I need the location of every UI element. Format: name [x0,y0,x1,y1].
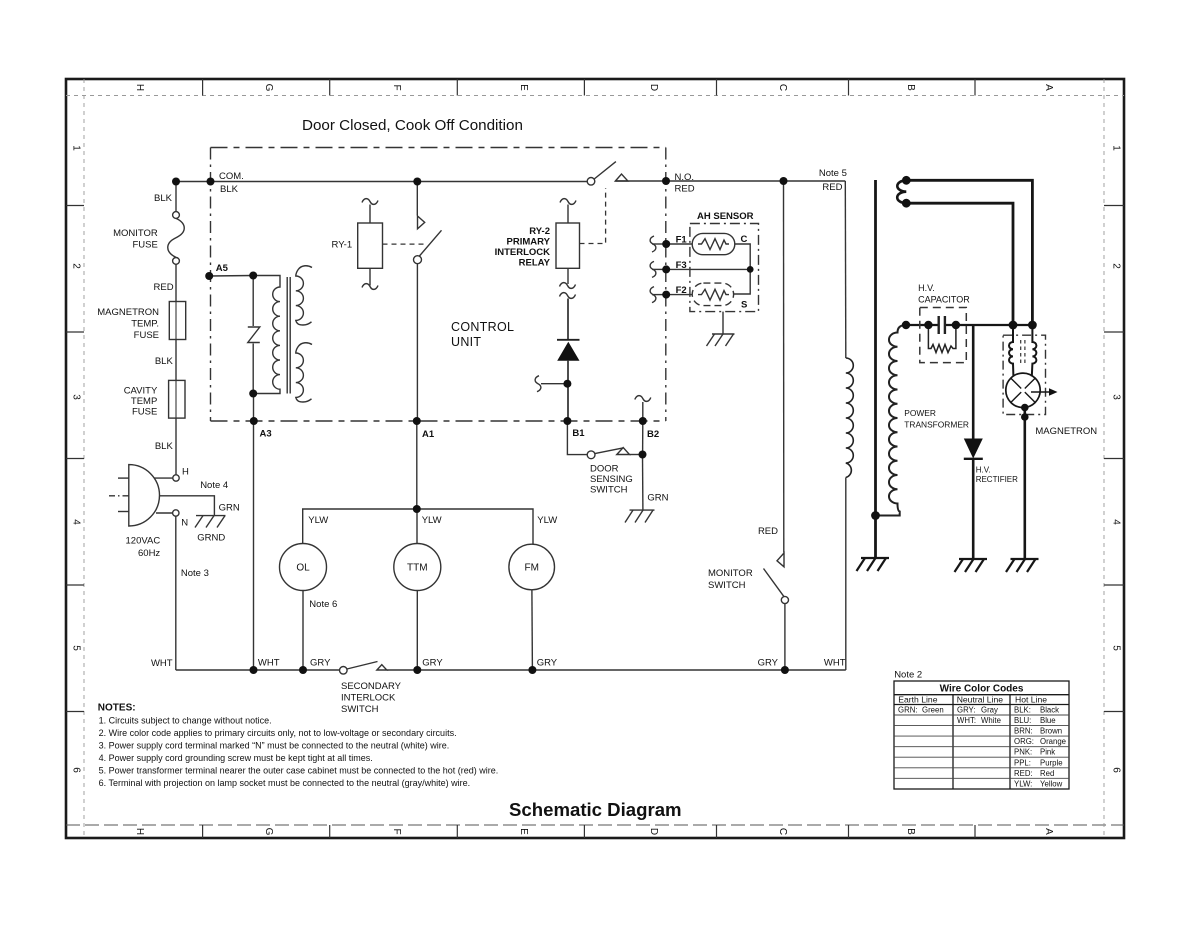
plug H terminal [173,475,179,481]
H.V. capacitor [920,308,967,363]
svg-text:SENSING: SENSING [590,474,633,485]
svg-text:N.O.: N.O. [675,172,695,183]
svg-text:BLK:: BLK: [1014,706,1031,715]
svg-text:Purple: Purple [1040,758,1063,767]
svg-text:6. Terminal with projection on: 6. Terminal with projection on lamp sock… [99,778,471,788]
F terminal stubs with breaks inside control unit [650,236,666,303]
wire: TTM drop [416,509,418,544]
wire: F3 line [666,268,750,270]
svg-text:RY-1: RY-1 [332,240,353,251]
timer motor TTM [394,544,441,591]
svg-text:B: B [905,84,916,91]
svg-text:Schematic Diagram: Schematic Diagram [509,799,682,820]
label N.O. RED [675,172,695,195]
svg-text:SWITCH: SWITCH [341,704,379,715]
svg-text:6: 6 [1111,767,1122,773]
node magnetron output [1021,413,1029,421]
svg-text:3: 3 [71,394,82,400]
node F1 [662,240,670,248]
svg-text:INTERLOCK: INTERLOCK [495,247,551,258]
svg-text:5: 5 [71,645,82,651]
wire: F2 stub [652,294,666,296]
svg-text:F: F [391,84,402,90]
lamp OL [280,544,327,591]
svg-text:MAGNETRON: MAGNETRON [97,307,159,318]
svg-text:C: C [777,84,788,91]
svg-text:DOOR: DOOR [590,464,619,475]
svg-text:GRN: GRN [219,503,240,514]
filament winding (top right) [897,180,906,203]
svg-text:G: G [263,828,274,836]
node B1 [563,417,571,425]
junction TTM at bottom wire [413,666,421,674]
fan motor FM [509,544,555,590]
svg-text:Note 3: Note 3 [181,568,209,579]
svg-text:CAVITY: CAVITY [124,386,158,397]
svg-text:F: F [391,828,402,834]
wire: HV bus (transformer to capacitor to magnetron) [906,324,939,326]
svg-text:B: B [905,828,916,835]
node F2 [662,291,670,299]
svg-text:SECONDARY: SECONDARY [341,681,402,692]
wire: center heavy lead (outer case side) [874,180,877,557]
svg-text:BRN:: BRN: [1014,727,1033,736]
svg-text:RY-2: RY-2 [529,226,550,237]
svg-text:A3: A3 [260,429,272,440]
node monitor switch tap [780,177,788,185]
magnetron tube circle [1006,373,1040,407]
node A5 [205,272,213,280]
N.O. interlock contact on main line [587,162,628,186]
svg-text:COM.: COM. [219,171,244,182]
sensor element S (dashed oval with resistor) [692,283,733,306]
monitor switch [764,553,789,670]
wire: element C to F3 node [735,244,750,269]
svg-text:G: G [263,84,274,92]
wire: A1 column down to YLW line [416,421,418,509]
filament coil left [1009,325,1013,376]
anode X pattern [1011,378,1035,402]
wire: F3 node down to element S [734,269,751,294]
label COM. BLK [219,171,244,195]
wire: plug N down to bottom WHT wire [175,516,177,670]
HV secondary winding [876,325,907,516]
svg-text:B2: B2 [647,429,659,440]
svg-text:Brown: Brown [1040,727,1062,736]
svg-text:GRY: GRY [537,658,558,669]
label RY-2 PRIMARY INTERLOCK RELAY [495,226,551,269]
monitor fuse (symbol) [168,212,185,265]
svg-text:A1: A1 [422,429,435,440]
svg-text:NOTES:: NOTES: [98,703,136,714]
svg-text:FM: FM [524,563,538,574]
junction door switch contact [639,451,647,459]
svg-text:RED: RED [822,182,842,193]
dashed link RY-2 to N.O. contact [580,188,606,244]
diode (control unit) [557,340,580,361]
wire color codes table [894,681,1069,789]
magnetron dashed box [1003,335,1045,414]
wire: N.O. RED column down to monitor switch [783,181,785,553]
AH sensor dashed box [690,224,759,312]
antenna arrow [1031,391,1050,393]
AH SENSOR assembly [666,224,758,347]
svg-text:TEMP.: TEMP. [131,319,159,330]
node B2 [639,417,647,425]
junction monitor switch at bottom wire [781,666,789,674]
wire: RY-2 to diode [567,299,569,340]
svg-text:6: 6 [71,767,82,773]
wire: YLW distribution line [303,509,533,544]
svg-text:WHT:: WHT: [957,716,976,725]
junction OL at bottom wire [299,666,307,674]
junction FM at bottom wire [528,666,536,674]
node COM on control-unit edge [207,178,215,186]
svg-text:INTERLOCK: INTERLOCK [341,693,396,704]
svg-text:PNK:: PNK: [1014,748,1032,757]
wire: F3 stub [652,268,666,270]
svg-text:ORG:: ORG: [1014,737,1034,746]
junction magnetron filament left [1009,321,1018,330]
svg-text:D: D [648,84,659,91]
LV transformer (control unit) [248,266,312,402]
wire: TTM to bottom [416,591,418,671]
H.V. rectifier [955,325,988,572]
svg-text:MONITOR: MONITOR [708,568,753,579]
svg-text:BLK: BLK [155,356,174,367]
wire: cavity fuse to plug H terminal [175,418,177,475]
plug N terminal [173,510,179,516]
ground (AH sensor) [712,333,735,335]
svg-text:CAPACITOR: CAPACITOR [918,295,970,305]
svg-text:UNIT: UNIT [451,335,481,349]
svg-text:GRN: GRN [647,493,668,504]
node magnetron cathode [1021,404,1029,412]
secondary winding 2 [296,343,312,402]
svg-text:GRY:: GRY: [957,706,976,715]
svg-text:H: H [182,467,189,478]
svg-text:2: 2 [71,263,82,269]
svg-text:E: E [518,84,529,91]
svg-text:5: 5 [1111,645,1122,651]
wire: between fuses [175,340,177,381]
wire: monitor fuse drop from COM line [175,182,177,212]
relay RY-2 primary interlock relay [556,199,580,299]
svg-text:RED: RED [154,282,174,293]
svg-text:SWITCH: SWITCH [708,580,746,591]
wire: filament lead bottom to magnetron left [906,203,1013,325]
svg-text:4. Power supply cord grounding: 4. Power supply cord grounding screw mus… [99,753,373,763]
svg-text:FUSE: FUSE [134,330,159,341]
svg-text:2: 2 [1111,263,1122,269]
svg-text:FUSE: FUSE [132,407,157,418]
node COM corner [172,178,180,186]
wire: plug to H terminal [154,477,173,479]
svg-text:BLK: BLK [155,441,174,452]
svg-text:WHT: WHT [151,658,173,669]
node N.O. RED [662,177,670,185]
varistor Z branch [252,276,254,327]
dashed link RY-1 to contact [383,243,427,245]
core [286,277,288,394]
power transformer [845,180,1032,670]
magnetron [1003,325,1057,572]
svg-text:Neutral Line: Neutral Line [957,695,1004,705]
secondary winding 1 [296,266,312,325]
magnetron temp. fuse body [169,302,185,340]
svg-text:Yellow: Yellow [1040,779,1063,788]
svg-text:C: C [741,234,748,245]
wire: main COM line top [176,181,587,183]
wire: plug to N terminal [156,512,173,514]
wire: OL to bottom [302,591,304,671]
wire: A5 to LV transformer [209,275,253,278]
node A3 [250,417,258,425]
svg-text:BLK: BLK [220,184,239,195]
svg-text:GRY: GRY [758,658,779,669]
svg-text:GRY: GRY [310,658,331,669]
border frame (decorative) [66,79,1124,838]
svg-text:RED:: RED: [1014,769,1033,778]
wire: magnetron cathode to ground [1024,408,1027,559]
wire: diode to junction and B1 [567,361,569,421]
svg-text:BLU:: BLU: [1014,716,1031,725]
svg-text:4: 4 [1111,519,1122,525]
svg-text:A: A [1043,828,1054,835]
power plug body 120VAC [109,465,160,526]
svg-text:Pink: Pink [1040,748,1055,757]
secondary interlock switch [340,662,387,675]
svg-text:Hot Line: Hot Line [1015,695,1047,705]
left column labels [97,193,173,669]
svg-text:MONITOR: MONITOR [113,228,158,239]
svg-text:4: 4 [71,519,82,525]
svg-text:MAGNETRON: MAGNETRON [1035,426,1097,437]
svg-text:Black: Black [1040,706,1059,715]
svg-text:GRN:: GRN: [898,706,918,715]
svg-text:Note 4: Note 4 [200,480,228,491]
sensor element C (oval with resistor) [692,233,735,254]
wire: Note5 RED corner down to primary winding [844,181,847,358]
svg-text:1: 1 [71,145,82,151]
junction capacitor left [924,321,932,329]
ground (H.V. rectifier) [955,559,988,572]
junction diode output [563,380,571,388]
svg-text:Wire Color Codes: Wire Color Codes [940,684,1024,695]
wire: sensor box to ground [722,312,724,334]
control unit dashed enclosure [211,148,666,422]
junction YLW line [413,505,421,513]
wire: main line after interlock contact to Note-5 corner [615,180,845,182]
svg-text:Note 2: Note 2 [894,670,922,681]
table headers [898,695,1047,705]
svg-text:1: 1 [1111,145,1122,151]
svg-text:CONTROL: CONTROL [451,320,514,334]
label F1 F3 F2 [676,235,688,297]
node HV winding output [902,321,910,329]
svg-text:YLW: YLW [422,515,442,526]
svg-text:OL: OL [296,563,310,574]
svg-text:POWER: POWER [904,408,936,418]
svg-text:RELAY: RELAY [519,258,551,269]
ground GRND (plug) [195,516,226,528]
node LV transformer bottom [249,390,257,398]
svg-text:Door Closed, Cook Off Conditio: Door Closed, Cook Off Condition [302,117,523,134]
svg-text:3: 3 [1111,394,1122,400]
svg-text:YLW: YLW [537,515,557,526]
svg-text:BLK: BLK [154,193,173,204]
svg-text:C: C [777,828,788,835]
svg-text:FUSE: FUSE [132,240,157,251]
cavity temp fuse body [169,380,185,418]
svg-text:GRY: GRY [422,658,443,669]
svg-text:Blue: Blue [1040,716,1056,725]
svg-text:A5: A5 [216,263,229,274]
node filament winding bottom [902,199,911,208]
svg-text:Green: Green [922,706,944,715]
lamp/motor branch [280,421,555,670]
svg-text:5. Power transformer terminal: 5. Power transformer terminal nearer the… [99,766,499,776]
svg-text:A: A [1043,84,1054,91]
wire: A3 column (A3 down to bottom wire) [253,394,255,671]
svg-text:E: E [518,828,529,835]
ground (power transformer) [857,558,890,571]
wire: F1 to element C [666,243,692,245]
node LV transformer top [249,272,257,280]
svg-text:Orange: Orange [1040,737,1066,746]
node interlock contact tap [413,178,421,186]
primary winding (left) [846,358,854,478]
RY-1 interlock contact (on A1 column) [414,182,442,422]
primary winding [253,276,280,394]
wire: B2 stub up with break [635,396,651,421]
svg-text:Note 5: Note 5 [819,168,847,179]
door sensing switch [567,421,654,523]
svg-text:H: H [134,828,145,835]
svg-text:TRANSFORMER: TRANSFORMER [904,420,969,430]
svg-text:AH SENSOR: AH SENSOR [697,211,754,222]
wire: B2 down to door switch contact [642,421,644,455]
wire: F2 to element S [666,294,692,296]
svg-text:WHT: WHT [824,658,846,669]
svg-text:S: S [741,300,747,311]
svg-text:Red: Red [1040,769,1054,778]
node filament winding top [902,176,911,185]
junction capacitor right [952,321,960,329]
svg-text:D: D [648,828,659,835]
filament core dashes [1020,340,1022,366]
svg-text:Gray: Gray [981,706,998,715]
svg-text:PRIMARY: PRIMARY [507,237,551,248]
wire: bottom WHT/GRY line [176,669,340,671]
svg-text:Note 6: Note 6 [309,599,337,610]
svg-text:60Hz: 60Hz [138,548,160,559]
svg-text:TEMP: TEMP [131,396,157,407]
svg-text:H.V.: H.V. [976,466,991,475]
svg-text:Earth Line: Earth Line [898,695,937,705]
svg-text:RECTIFIER: RECTIFIER [976,475,1018,484]
relay RY-1 [358,199,383,290]
wire: plug grounding screw to GRND [159,496,214,516]
wire: FM to bottom [531,590,534,670]
ground (magnetron) [1006,559,1039,572]
wire: F1 stub [652,243,666,245]
svg-text:YLW: YLW [308,515,328,526]
svg-text:SWITCH: SWITCH [590,485,628,496]
junction transformer ground lead [871,511,880,520]
svg-text:B1: B1 [572,428,585,439]
svg-text:White: White [981,716,1001,725]
svg-text:RED: RED [758,526,778,537]
junction A3 at bottom wire [250,666,258,674]
filament coil right [1032,325,1037,377]
svg-text:120VAC: 120VAC [126,536,161,547]
svg-text:2. Wire color code applies to: 2. Wire color code applies to primary ci… [99,728,457,738]
svg-text:PPL:: PPL: [1014,758,1031,767]
junction AH sensor F3 tap [747,266,754,273]
svg-text:GRND: GRND [197,533,225,544]
svg-text:YLW:: YLW: [1014,779,1032,788]
bleeder resistor [928,325,956,353]
wire: filament lead top to magnetron right [906,180,1032,325]
svg-text:RED: RED [675,184,695,195]
svg-text:H: H [134,84,145,91]
node F3 [662,265,670,273]
svg-text:1. Circuits subject to change: 1. Circuits subject to change without no… [99,716,272,726]
wire: fuse to magnetron temp fuse [175,264,177,301]
svg-text:TTM: TTM [407,563,428,574]
ground (door sensing switch) [630,509,655,511]
svg-text:H.V.: H.V. [918,283,935,293]
node A1 [413,417,421,425]
svg-text:WHT: WHT [258,658,280,669]
junction magnetron filament right [1028,321,1037,330]
wire: branch left of diode junction with break [535,376,567,392]
svg-text:N: N [181,518,188,529]
wire: primary winding down to bottom WHT corner [845,478,847,671]
table data [898,706,1066,789]
svg-text:3. Power supply cord terminal: 3. Power supply cord terminal marked “N”… [99,741,450,751]
wire: B2 contact down to ground [642,455,644,511]
